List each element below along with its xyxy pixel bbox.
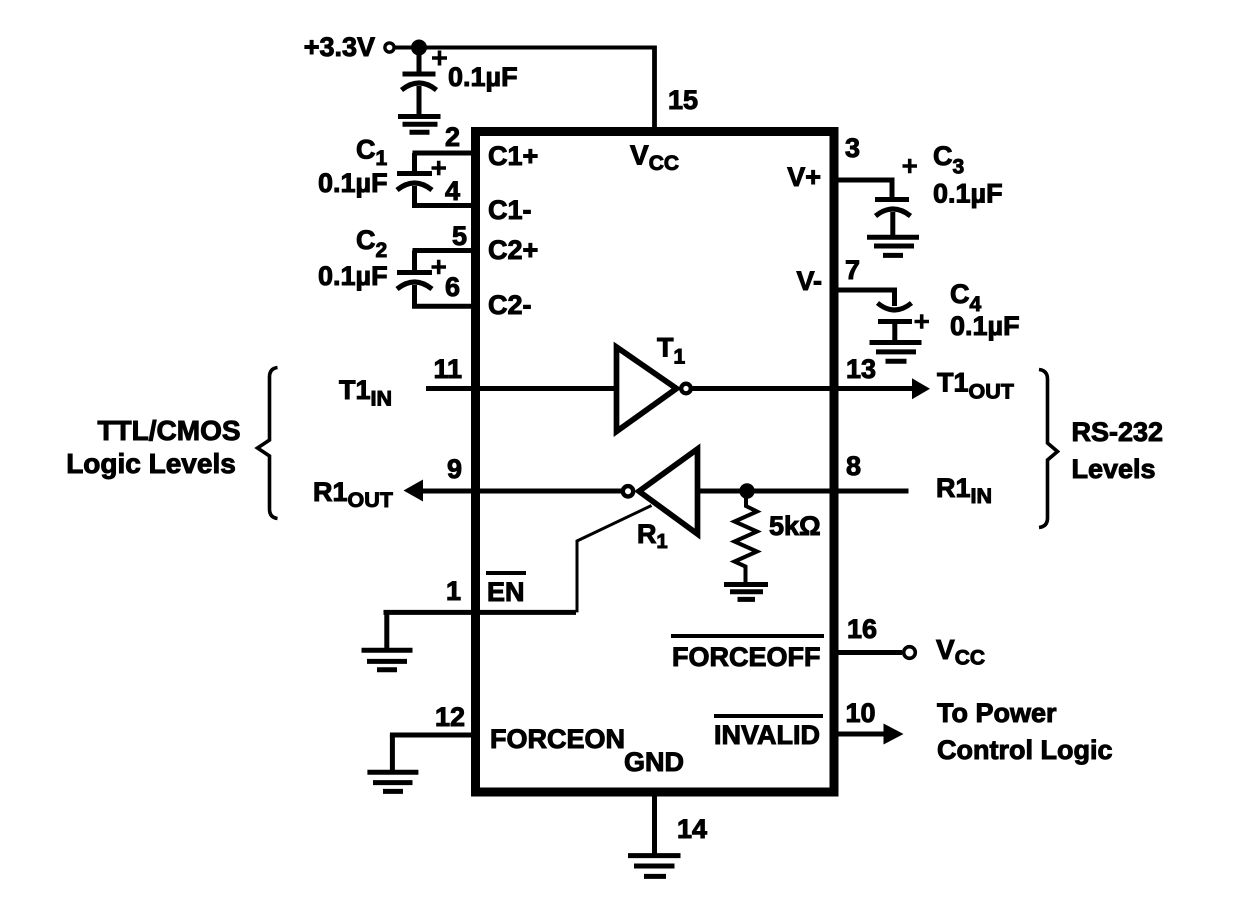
svg-text:0.1µF: 0.1µF <box>318 168 388 198</box>
junction dot at +3.3V <box>411 40 427 56</box>
capacitor C5 stem bottom <box>417 86 422 114</box>
svg-text:+3.3V: +3.3V <box>304 32 375 62</box>
pin 14 wire <box>652 793 657 855</box>
capacitor C2 plate flat <box>397 270 432 275</box>
svg-text:C2: C2 <box>356 225 387 262</box>
pin 16 wire <box>833 650 902 655</box>
wire R1 output to pin 9 <box>421 489 623 494</box>
svg-text:GND: GND <box>624 747 684 777</box>
svg-text:T1IN: T1IN <box>339 375 392 411</box>
R1OUT arrow head <box>404 480 424 502</box>
svg-text:EN: EN <box>487 577 525 607</box>
pin 4 wire <box>412 203 476 208</box>
pin 16 VCC terminal circle <box>904 647 916 659</box>
capacitor C5 0.1uF stem top <box>417 48 422 75</box>
svg-text:INVALID: INVALID <box>714 720 820 750</box>
pin 2 wire <box>413 151 477 156</box>
capacitor C1 plate curved <box>397 183 432 190</box>
svg-text:4: 4 <box>445 176 460 206</box>
svg-text:FORCEOFF: FORCEOFF <box>672 642 821 672</box>
capacitor C4 plate flat <box>878 319 912 324</box>
svg-text:C1-: C1- <box>488 195 532 225</box>
svg-text:Levels: Levels <box>1072 454 1156 484</box>
svg-text:8: 8 <box>846 451 861 481</box>
ground at pin 14 <box>628 856 681 877</box>
svg-text:C2+: C2+ <box>488 235 538 265</box>
capacitor C5 plate curved <box>402 83 437 90</box>
ground at pin 1 <box>362 650 413 670</box>
svg-text:0.1µF: 0.1µF <box>318 261 388 291</box>
svg-text:C3: C3 <box>933 141 964 179</box>
resistor 5k zigzag <box>735 491 758 583</box>
capacitor C3 plate flat <box>875 197 909 202</box>
svg-text:V-: V- <box>796 266 822 296</box>
capacitor C2 stem bottom <box>412 285 417 306</box>
capacitor C5 plus sign <box>432 51 447 66</box>
capacitor C3 stem bottom <box>890 212 895 235</box>
node +3.3V terminal circle <box>385 43 394 52</box>
svg-text:5: 5 <box>452 221 467 251</box>
svg-text:16: 16 <box>847 614 877 644</box>
capacitor C1 stem bottom <box>412 186 417 206</box>
pin 1 wire <box>384 610 577 615</box>
ground stem at pin 1 <box>384 612 389 648</box>
IC U1 body <box>476 132 835 793</box>
svg-text:V+: V+ <box>787 162 821 192</box>
svg-text:Control Logic: Control Logic <box>937 735 1112 765</box>
pin 10 wire <box>833 732 884 737</box>
wire R1 input from pin 8 <box>699 489 909 494</box>
capacitor C2 plate curved <box>397 282 432 289</box>
capacitor C4 plus sign <box>915 314 930 329</box>
op-amp R1 inverter triangle <box>639 449 698 534</box>
svg-text:TTL/CMOS: TTL/CMOS <box>97 415 240 446</box>
pin 5 wire <box>413 248 477 253</box>
svg-text:0.1µF: 0.1µF <box>933 179 1003 209</box>
svg-text:To Power: To Power <box>937 698 1057 728</box>
svg-text:9: 9 <box>447 454 462 484</box>
svg-text:14: 14 <box>677 814 707 844</box>
T1OUT arrow head <box>912 378 930 399</box>
right brace RS-232 <box>1039 370 1058 528</box>
svg-text:12: 12 <box>435 702 465 732</box>
svg-text:10: 10 <box>846 698 876 728</box>
capacitor C4 plate curved <box>878 303 912 310</box>
svg-text:T1OUT: T1OUT <box>937 368 1014 404</box>
capacitor C4 stem bottom <box>892 322 897 341</box>
op-amp T1 inverter triangle <box>617 347 677 432</box>
ground at pin 12 <box>367 772 418 791</box>
wire +3.3V to VCC pin 15 <box>394 46 657 50</box>
svg-text:6: 6 <box>445 272 460 302</box>
svg-text:FORCEON: FORCEON <box>490 724 625 754</box>
capacitor C5 plate flat <box>403 72 436 77</box>
pin 7 wire V- <box>833 290 895 306</box>
ground stem at pin 12 <box>390 735 395 770</box>
svg-text:T1: T1 <box>657 333 686 369</box>
svg-text:R1OUT: R1OUT <box>313 477 393 512</box>
capacitor C2 stem top <box>412 251 417 273</box>
svg-text:7: 7 <box>845 255 860 285</box>
INVALID arrow head <box>884 724 904 745</box>
capacitor C2 plus sign <box>432 260 447 275</box>
capacitor C1 plate flat <box>397 171 432 176</box>
svg-text:0.1µF: 0.1µF <box>950 311 1020 341</box>
svg-text:3: 3 <box>845 133 860 163</box>
svg-text:0.1µF: 0.1µF <box>448 62 518 92</box>
svg-text:11: 11 <box>433 354 462 384</box>
junction dot at 5k resistor <box>739 483 754 498</box>
ground at C3 <box>867 237 919 255</box>
ground at 5k resistor <box>724 585 768 600</box>
svg-text:R1IN: R1IN <box>936 473 992 508</box>
svg-text:5kΩ: 5kΩ <box>769 511 821 541</box>
svg-text:15: 15 <box>668 85 698 115</box>
pin 12 wire <box>390 733 476 738</box>
svg-text:Logic Levels: Logic Levels <box>66 448 236 479</box>
svg-text:1: 1 <box>446 576 461 606</box>
svg-text:VCC: VCC <box>630 140 679 176</box>
pin 11 wire T1IN <box>426 386 616 391</box>
T1 output bubble <box>681 384 691 394</box>
svg-text:R1: R1 <box>637 519 668 553</box>
R1 input bubble <box>623 486 633 496</box>
capacitor C1 plus sign <box>432 161 447 176</box>
ground at C5 <box>398 117 441 133</box>
ground at C4 <box>870 343 922 362</box>
pin 3 wire V+ <box>833 180 892 198</box>
svg-text:2: 2 <box>445 122 460 152</box>
capacitor C1 stem top <box>412 153 417 174</box>
svg-text:C2-: C2- <box>488 290 532 320</box>
wire T1 output to pin 13 <box>693 386 914 391</box>
svg-text:C1: C1 <box>356 135 388 171</box>
pin 6 wire <box>412 304 476 309</box>
svg-text:VCC: VCC <box>936 634 985 670</box>
wire EN to R1 enable <box>577 506 652 613</box>
svg-text:13: 13 <box>846 354 876 384</box>
capacitor C3 plus sign <box>903 159 918 174</box>
svg-text:RS-232: RS-232 <box>1072 417 1164 447</box>
capacitor C3 plate curved <box>876 209 911 216</box>
svg-text:C1+: C1+ <box>488 141 538 171</box>
left brace TTL/CMOS <box>258 368 278 519</box>
